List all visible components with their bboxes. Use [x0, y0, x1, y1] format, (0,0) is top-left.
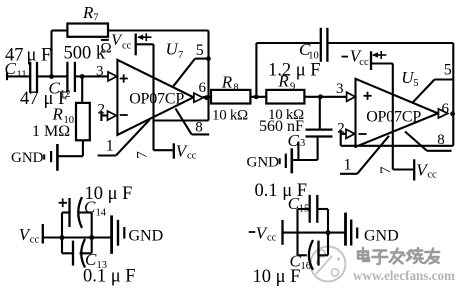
svg-text:1: 1	[106, 138, 114, 155]
svg-text:1 MΩ: 1 MΩ	[32, 123, 70, 140]
svg-text:1: 1	[344, 156, 352, 173]
svg-text:47: 47	[20, 89, 39, 109]
svg-text:8: 8	[437, 132, 445, 148]
svg-text:C: C	[84, 197, 96, 216]
svg-text:6: 6	[199, 80, 207, 96]
svg-text:Ω: Ω	[101, 41, 112, 57]
svg-text:10 kΩ: 10 kΩ	[212, 108, 248, 124]
svg-text:www.elecfans.com: www.elecfans.com	[353, 269, 455, 284]
svg-text:7: 7	[378, 166, 394, 174]
svg-text:0.1 μ F: 0.1 μ F	[255, 181, 308, 201]
svg-text:10 μ F: 10 μ F	[253, 267, 301, 287]
svg-text:3: 3	[336, 81, 344, 97]
svg-text:3: 3	[300, 138, 305, 149]
svg-text:7: 7	[93, 13, 98, 24]
svg-text:cc: cc	[427, 170, 437, 181]
svg-text:GND: GND	[11, 150, 44, 166]
svg-text:7: 7	[135, 151, 151, 159]
svg-text:5: 5	[196, 42, 204, 59]
svg-text:9: 9	[290, 81, 295, 92]
svg-text:5: 5	[444, 62, 452, 79]
svg-text:11: 11	[17, 70, 27, 81]
svg-text:μ F: μ F	[27, 46, 52, 66]
svg-text:cc: cc	[30, 234, 40, 245]
svg-text:1.2 μ F: 1.2 μ F	[268, 61, 321, 81]
svg-text:C: C	[5, 59, 17, 78]
svg-text:14: 14	[96, 207, 107, 218]
svg-text:GND: GND	[129, 227, 164, 244]
svg-text:2: 2	[337, 120, 345, 136]
svg-text:R: R	[52, 105, 64, 124]
svg-text:cc: cc	[187, 150, 197, 161]
svg-text:OP07CP: OP07CP	[129, 91, 184, 108]
svg-text:R: R	[82, 3, 94, 22]
svg-text:cc: cc	[267, 233, 277, 244]
svg-text:6: 6	[442, 101, 450, 117]
svg-text:0.1 μ F: 0.1 μ F	[83, 267, 136, 287]
svg-text:8: 8	[234, 82, 239, 93]
svg-text:5: 5	[413, 78, 418, 89]
svg-text:GND: GND	[364, 227, 399, 244]
svg-text:16: 16	[301, 261, 312, 272]
svg-text:2: 2	[98, 102, 106, 118]
svg-text:cc: cc	[359, 57, 369, 68]
svg-text:cc: cc	[122, 41, 132, 52]
svg-text:8: 8	[195, 120, 203, 136]
svg-text:3: 3	[96, 63, 104, 79]
svg-text:GND: GND	[247, 154, 280, 170]
svg-text:OP07CP: OP07CP	[366, 108, 421, 125]
svg-text:7: 7	[178, 50, 183, 61]
svg-text:R: R	[221, 73, 233, 92]
svg-text:C: C	[288, 131, 300, 150]
svg-text:15: 15	[299, 204, 310, 215]
